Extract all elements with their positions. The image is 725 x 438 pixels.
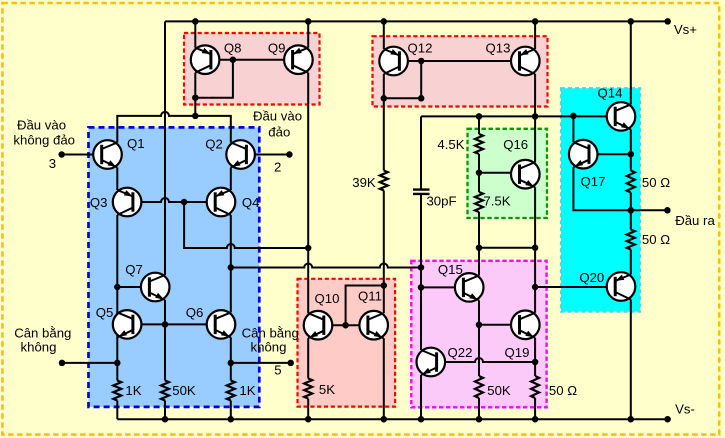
junction Q22 base / Q19 emitter [532, 359, 539, 366]
transistor Q10 [304, 311, 333, 340]
terminal output [664, 207, 671, 214]
junction Q8 collector tie [192, 94, 199, 101]
wire Q14 emitter to 50ohm (output top) [630, 129, 632, 170]
wire null offset left pin 1 [62, 362, 117, 364]
junction bus / 4.5K top [476, 113, 483, 120]
resistor 50ohm output bottom [627, 230, 635, 250]
wire Vs+ rail down to Q14 collector [630, 21, 632, 104]
junction Q16 base / divider [476, 169, 483, 176]
wire Q5 base to Q6 base [133, 323, 215, 325]
junction Vs+ / Q12 emitter [381, 18, 388, 25]
wire 50ohm bottom to Q20 emitter [630, 250, 632, 275]
wire 50K bottom to Vs- rail [164, 401, 166, 420]
svg-text:3: 3 [49, 156, 56, 171]
transistor Q9 [284, 45, 313, 74]
transistor Q8 [191, 45, 220, 74]
wire Q22 emitter to Vs- rail [420, 375, 422, 419]
junction Q17 base / Q14 emitter [628, 151, 635, 158]
wire Q4/Q6 collectors to compensation cap [231, 264, 421, 268]
svg-text:không: không [251, 339, 287, 354]
wire Q7 base to Q3 collector [117, 286, 149, 288]
svg-text:Q5: Q5 [96, 305, 114, 320]
wire Q17 emitter to output node [573, 167, 630, 210]
wire Q12 emitter to Vs+ rail [383, 21, 385, 49]
wire Q19 base to Q15 emitter [479, 324, 520, 326]
junction null right / Q6 emitter [228, 360, 235, 367]
terminal Vs- [664, 416, 671, 423]
wire 7.5K bottom to Q15 collector [478, 212, 480, 275]
wire Q13 collector to Q16 collector [534, 74, 536, 162]
transistor Q11 [359, 311, 388, 340]
svg-text:2: 2 [274, 160, 281, 175]
svg-text:Vs-: Vs- [675, 402, 695, 417]
svg-text:Vs+: Vs+ [674, 22, 697, 37]
wire Q17 collector up to bus [572, 116, 574, 142]
svg-text:50K: 50K [172, 383, 196, 398]
wire inverting input pin 2 [246, 154, 289, 156]
transistor Q16 [511, 160, 540, 189]
transistor Q5 [113, 310, 142, 339]
terminal pin 2 [286, 151, 293, 158]
transistor Q17 [569, 140, 598, 169]
junction Vs- / Q20 collector [628, 416, 635, 423]
wire Q16 emitter to Q15 collector link [479, 247, 535, 249]
wire Q1/Q2 collectors to Q8 collector [117, 112, 231, 143]
svg-text:Q12: Q12 [408, 40, 433, 55]
region: Q12/Q13 current mirror (pink box) [373, 36, 548, 106]
region: Q10/Q11 bias (salmon box) [298, 279, 396, 407]
svg-text:Cân bằng: Cân bằng [14, 325, 71, 340]
svg-text:Q11: Q11 [358, 289, 382, 304]
terminal Vs+ [664, 18, 671, 25]
transistor Q6 [207, 310, 236, 339]
transistor Q15 [455, 273, 484, 302]
transistor Q19 [511, 311, 540, 340]
terminal pin 3 [58, 151, 64, 158]
resistor 1K left [113, 381, 121, 401]
wire output terminal [631, 209, 668, 211]
svg-text:5: 5 [274, 363, 281, 378]
svg-text:Q6: Q6 [186, 305, 204, 320]
wire 39K bottom to Q11 collector [383, 191, 385, 314]
node wire: compensation/base bus y=116.4 [421, 115, 615, 117]
resistor 4.5K [475, 134, 483, 154]
wire Q11 emitter to Vs- rail [383, 338, 385, 419]
junction Q4/Q6 collector node [228, 264, 235, 271]
wire 50ohm to output node to 50ohm [630, 193, 632, 230]
wire Q4 collector down to Q6 collector [230, 215, 232, 312]
wire Q16 base from divider [479, 172, 520, 174]
wire 50ohm bottom to Vs- rail [534, 398, 536, 419]
terminal null left [59, 360, 66, 367]
junction Vs- / 5K [305, 416, 312, 423]
junction Q12 tie corner [418, 95, 425, 102]
resistor 50K magenta [475, 376, 483, 398]
wire Q8 base to Q9 base [211, 59, 293, 61]
wire 5K bottom to Vs- rail [307, 399, 309, 420]
junction Q20 base / Q19 collector [532, 284, 539, 291]
resistor 1K right [227, 381, 235, 401]
wire Q1 emitter to Q3 emitter [116, 168, 118, 191]
junction Q10 base tie [342, 322, 349, 329]
wire Q15 emitter down to 50K magenta [478, 300, 480, 376]
resistor 50ohm output top [627, 171, 635, 193]
junction Vs+ / Q9 emitter [305, 18, 312, 25]
svg-text:Q17: Q17 [581, 174, 606, 189]
svg-text:không: không [21, 339, 57, 354]
junction cap bottom / Q15 base wire [418, 264, 425, 271]
transistor Q2 [226, 140, 255, 169]
junction Vs- / Q22 emitter [418, 416, 425, 423]
transistor Q4 [207, 188, 236, 217]
svg-text:Q3: Q3 [90, 195, 108, 210]
wire Q15 base from cap node [421, 286, 463, 288]
junction bus / Q17 collector [570, 113, 577, 120]
svg-text:30pF: 30pF [426, 194, 456, 209]
svg-text:không đảo: không đảo [13, 133, 75, 148]
wire Q3 collector down to 1K resistor [116, 215, 118, 381]
wire Q16 emitter down to Q19 collector [534, 187, 536, 313]
wire Q13 emitter to Vs+ rail [534, 21, 536, 49]
svg-text:Q13: Q13 [486, 40, 511, 55]
wire 1K left bottom to Vs- rail [116, 401, 118, 420]
transistor Q7 [141, 273, 170, 302]
svg-text:50K: 50K [487, 383, 511, 398]
wire Q9 emitter to Vs+ rail [307, 21, 309, 47]
svg-text:7.5K: 7.5K [483, 194, 510, 209]
wire Q8 base-collector tie [195, 60, 233, 98]
wire 1K right bottom to Vs- rail [230, 401, 232, 420]
svg-text:Q4: Q4 [242, 195, 260, 210]
junction base node at Q9 collector [305, 245, 312, 252]
svg-text:Q8: Q8 [224, 41, 242, 56]
wire 4.5K top lead [478, 116, 480, 134]
transistor Q20 [607, 272, 636, 301]
junction Vs+ / Q8 emitter [192, 18, 199, 25]
resistor 7.5K [475, 192, 483, 212]
junction output node [628, 207, 635, 214]
junction Q11 collector tie [381, 282, 388, 289]
wire Q3/Q4 bases link [133, 198, 215, 202]
wire cap bottom to Q22 collector [420, 194, 422, 350]
wire Vs+ corner down to Q7 collector [164, 21, 166, 275]
wire Q12 collector down to 39K resistor [383, 74, 385, 171]
svg-text:Đầu ra: Đầu ra [675, 213, 715, 228]
junction Vs- / 50ohm magenta [532, 416, 539, 423]
wire Vs+ top rail [165, 20, 668, 22]
region: Q16 output bias (green box) [468, 129, 548, 218]
wire cap top lead [420, 116, 422, 189]
wire Q2 emitter to Q4 emitter [230, 168, 232, 191]
wire Q8 emitter to Vs+ rail [194, 21, 196, 47]
wire Vs- bottom rail [117, 418, 667, 420]
wire 50K magenta bottom to Vs- rail [478, 398, 480, 419]
wire Q10 base to Q11 base [324, 324, 368, 326]
svg-text:Q10: Q10 [315, 291, 340, 306]
transistor Q1 [93, 140, 122, 169]
wire Q12 base to Q13 base [399, 60, 519, 62]
junction Q3/Q4 base node [181, 199, 188, 206]
transistor Q13 [511, 47, 540, 76]
junction Q19 base / Q15 emitter [476, 322, 483, 329]
terminal null right pin 5 [287, 360, 294, 367]
junction Vs+ / Q13 emitter [532, 18, 539, 25]
junction Vs- / 50K [162, 416, 169, 423]
junction Vs- / Q11 emitter [381, 416, 388, 423]
wire Q7 emitter down to 50K resistor [164, 300, 166, 381]
wire Q22 base to Q19 emitter [437, 358, 535, 362]
svg-text:đảo: đảo [268, 125, 290, 140]
svg-text:5K: 5K [319, 382, 335, 397]
region: input differential stage (blue box) [89, 127, 260, 407]
wire Q10 emitter to 5K resistor [307, 338, 309, 378]
svg-text:50 Ω: 50 Ω [642, 175, 670, 190]
svg-text:Q14: Q14 [598, 86, 623, 101]
wire Q8 collector down to node [194, 73, 196, 116]
transistor Q14 [607, 102, 636, 131]
wire 4.5K to 7.5K (Q16 base node) [478, 154, 480, 192]
resistor 50ohm magenta [531, 376, 539, 398]
svg-text:Đầu vào: Đầu vào [253, 109, 302, 124]
wire Q20 base from Q19 collector [535, 286, 615, 288]
junction 7.5K bottom / Q15 collector [476, 244, 483, 251]
junction Vs- / 50K magenta [476, 416, 483, 423]
wire Q10 base to Q11 collector tie [346, 286, 384, 326]
junction Vs+ / Q14 collector [628, 18, 635, 25]
resistor 39K [380, 171, 388, 191]
junction Q12 collector tie [381, 95, 388, 102]
svg-text:Q2: Q2 [205, 137, 223, 152]
wire Q19 emitter to 50ohm resistor [534, 338, 536, 376]
junction Q7 base / Q3 collector [114, 284, 121, 291]
svg-text:Q16: Q16 [503, 137, 528, 152]
junction Q12 base tie [418, 58, 425, 65]
junction Q8 collector at bus [192, 113, 199, 120]
junction Q8 base tie [230, 56, 237, 63]
junction Q7 emitter / Q5 Q6 bases [162, 321, 169, 328]
wire Q20 collector to Vs- rail [630, 300, 632, 420]
svg-text:Q20: Q20 [579, 270, 604, 285]
transistor Q22 [417, 348, 446, 377]
svg-text:Q22: Q22 [448, 345, 473, 360]
region: Q15/Q19/Q22 stage (magenta box) [411, 261, 546, 408]
region: Q8/Q9 current mirror (pink box) [184, 33, 320, 105]
svg-text:50 Ω: 50 Ω [642, 232, 670, 247]
region: output stage (cyan box) [561, 88, 640, 312]
svg-text:Q15: Q15 [438, 262, 463, 277]
svg-text:Q1: Q1 [127, 136, 145, 151]
junction bus / Q13 collector [532, 113, 539, 120]
junction null left / Q5 emitter [114, 360, 121, 367]
svg-text:Q9: Q9 [268, 41, 286, 56]
junction Q15 base T [418, 284, 425, 291]
transistor Q3 [113, 188, 142, 217]
resistor 50K tail [161, 381, 169, 401]
svg-text:39K: 39K [352, 175, 376, 190]
svg-text:Cân bằng: Cân bằng [242, 325, 299, 340]
svg-text:1K: 1K [239, 383, 255, 398]
svg-text:Q19: Q19 [505, 345, 530, 360]
wire Q3/Q4 bases down to Q9/Q10 collector node [184, 202, 308, 248]
wire Q9 collector down to Q10 collector [307, 73, 309, 314]
resistor 5K [304, 379, 312, 399]
capacitor C1 30pF [413, 190, 430, 194]
svg-text:Q7: Q7 [125, 262, 143, 277]
junction Vs- / 1K right [228, 416, 235, 423]
wire null offset right pin 5 [231, 362, 291, 364]
junction Q16 emitter link left [532, 244, 539, 251]
svg-text:Đầu vào: Đầu vào [17, 118, 66, 133]
wire non-inverting input pin 3 [62, 154, 102, 156]
wire Q6 emitter to 1K resistor [230, 337, 232, 380]
svg-text:50 Ω: 50 Ω [549, 383, 577, 398]
transistor Q12 [379, 47, 408, 76]
wire Q17 base to Q14 emitter node [589, 153, 631, 155]
wire Q12 base-collector tie [384, 61, 421, 98]
svg-text:4.5K: 4.5K [437, 137, 464, 152]
svg-text:1K: 1K [125, 383, 141, 398]
